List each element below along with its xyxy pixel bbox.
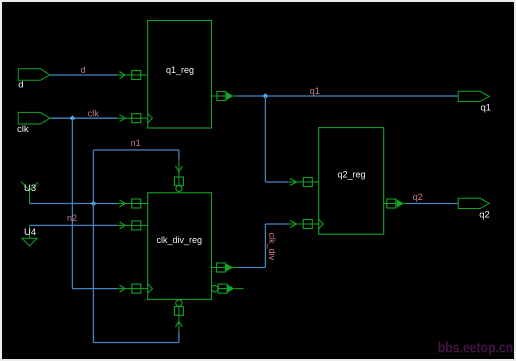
- pin arrow clk_div_reg QN (output): [227, 285, 234, 293]
- svg-text:n2: n2: [67, 213, 77, 223]
- svg-text:clk: clk: [88, 108, 99, 118]
- output port q2: [458, 198, 489, 208]
- pin arrow q2_reg D: [290, 179, 297, 186]
- pin clk_div_reg SN (top, inverted): [174, 177, 183, 192]
- clock notch q2_reg: [319, 219, 324, 228]
- constant driver U4: [22, 225, 37, 245]
- pin q2_reg CK: [303, 220, 318, 229]
- svg-text:U3: U3: [24, 183, 36, 194]
- wire net clk_div (green stub): [233, 267, 238, 269]
- svg-text:d: d: [18, 80, 23, 91]
- wire net clk_div (horizontal into q2 clk): [265, 223, 287, 225]
- svg-text:q2_reg: q2_reg: [337, 170, 365, 180]
- pin arrow q1_reg Q (output): [226, 92, 233, 100]
- wire net clk_div (horizontal blue): [239, 267, 266, 269]
- pin q1_reg Q: [212, 92, 227, 101]
- clock notch q1_reg: [148, 114, 153, 123]
- pin q1_reg CK: [132, 114, 148, 123]
- junction clk node: [70, 115, 76, 121]
- wire net clk (vertical branch): [71, 118, 73, 288]
- wire net n1 (bottom horizontal): [93, 342, 178, 344]
- svg-text:clk_div_reg: clk_div_reg: [157, 235, 203, 245]
- pin arrow clk_div_reg CK: [120, 285, 126, 292]
- wire net q2 (horizontal to port): [408, 203, 459, 205]
- svg-text:q1: q1: [310, 86, 320, 96]
- svg-text:q1: q1: [481, 102, 492, 113]
- svg-text:q2: q2: [413, 192, 423, 202]
- wire net q1 (vertical branch to q2_reg D): [264, 96, 266, 182]
- output port q1: [458, 91, 489, 101]
- register clk_div_reg: [148, 193, 212, 300]
- svg-text:q2: q2: [479, 209, 490, 220]
- wire net clk (bottom horizontal to clk_div_reg): [72, 288, 117, 290]
- svg-text:clk_div: clk_div: [267, 233, 277, 261]
- pin clk_div_reg QN (inverted output): [212, 284, 228, 293]
- pin arrow q2_reg Q (output): [397, 199, 404, 207]
- svg-text:d: d: [81, 65, 86, 75]
- wire stub QN: [234, 288, 243, 290]
- wire net n1 (drop to clk_div top pin, blue): [178, 150, 180, 159]
- wire net q1 (green stub): [234, 95, 238, 97]
- pin clk_div_reg D: [132, 199, 148, 208]
- wire net clk (green into clk_div clk pin): [117, 288, 132, 290]
- register q1_reg: [148, 21, 212, 129]
- pin q1_reg D: [132, 71, 148, 80]
- svg-text:bbs.eetop.cn: bbs.eetop.cn: [438, 341, 514, 357]
- wire net q1 (green into q2 D pin): [288, 181, 304, 183]
- wire net d (blue segment): [50, 74, 117, 76]
- wire net n1 (drop to clk_div top pin, green): [178, 159, 180, 186]
- svg-text:q1_reg: q1_reg: [166, 65, 194, 75]
- wire net clk_div (vertical rise): [264, 224, 266, 268]
- svg-text:clk: clk: [17, 124, 29, 135]
- clock notch clk_div_reg: [148, 284, 153, 293]
- pin clk_div_reg bottom (inverted): [174, 300, 183, 315]
- wire net clk_div (green into q2 clk pin): [288, 223, 304, 225]
- junction q1 node: [263, 93, 269, 99]
- input port clk: [18, 112, 50, 124]
- wire net n1 (left vertical): [92, 150, 94, 343]
- wire net q1 (horizontal into q2_reg D): [265, 181, 287, 183]
- register q2_reg: [319, 128, 384, 235]
- wire net n1 (green into clk_div D pin): [117, 203, 132, 205]
- pin clk_div_reg RN: [132, 221, 148, 230]
- wire net n1 (rise to clk_div bottom pin, blue): [178, 332, 180, 343]
- wire net n2 (green into clk_div second pin): [117, 224, 132, 226]
- pin clk_div_reg CK: [132, 284, 148, 293]
- pin clk_div_reg Q: [212, 263, 226, 272]
- wire net q1 (horizontal to port): [238, 95, 459, 97]
- pin q2_reg Q: [384, 199, 397, 208]
- junction n1 node: [91, 201, 97, 207]
- pin arrow clk_div_reg RN: [120, 222, 126, 229]
- pin arrow q2_reg CK: [290, 221, 297, 228]
- pin arrow clk_div_reg D: [120, 200, 126, 207]
- wire net d (green segment into pin): [117, 74, 132, 76]
- wire net n1 (top horizontal): [93, 149, 178, 151]
- wire net n1 (rise to clk_div bottom pin, green): [178, 306, 180, 331]
- pin arrow q1_reg D: [120, 72, 126, 79]
- pin arrow clk_div_reg Q (output): [226, 263, 233, 271]
- wire net n1 (U3 to clk_div_reg D, blue): [30, 203, 118, 205]
- input port d: [18, 69, 50, 81]
- pin arrow clk_div_reg SN (down): [175, 166, 182, 172]
- svg-text:n1: n1: [131, 138, 141, 148]
- pin q2_reg D: [303, 178, 318, 187]
- wire net n2 (blue): [30, 224, 118, 226]
- pin arrow q1_reg CK: [120, 115, 126, 122]
- pin arrow clk_div_reg bottom (up): [175, 322, 182, 328]
- svg-text:U4: U4: [24, 227, 36, 238]
- wire net clk (green into q1 clk pin): [117, 117, 132, 119]
- wire net clk (horizontal blue): [50, 117, 117, 119]
- constant driver U3: [21, 182, 38, 204]
- wire net q2 (green stub): [404, 203, 407, 205]
